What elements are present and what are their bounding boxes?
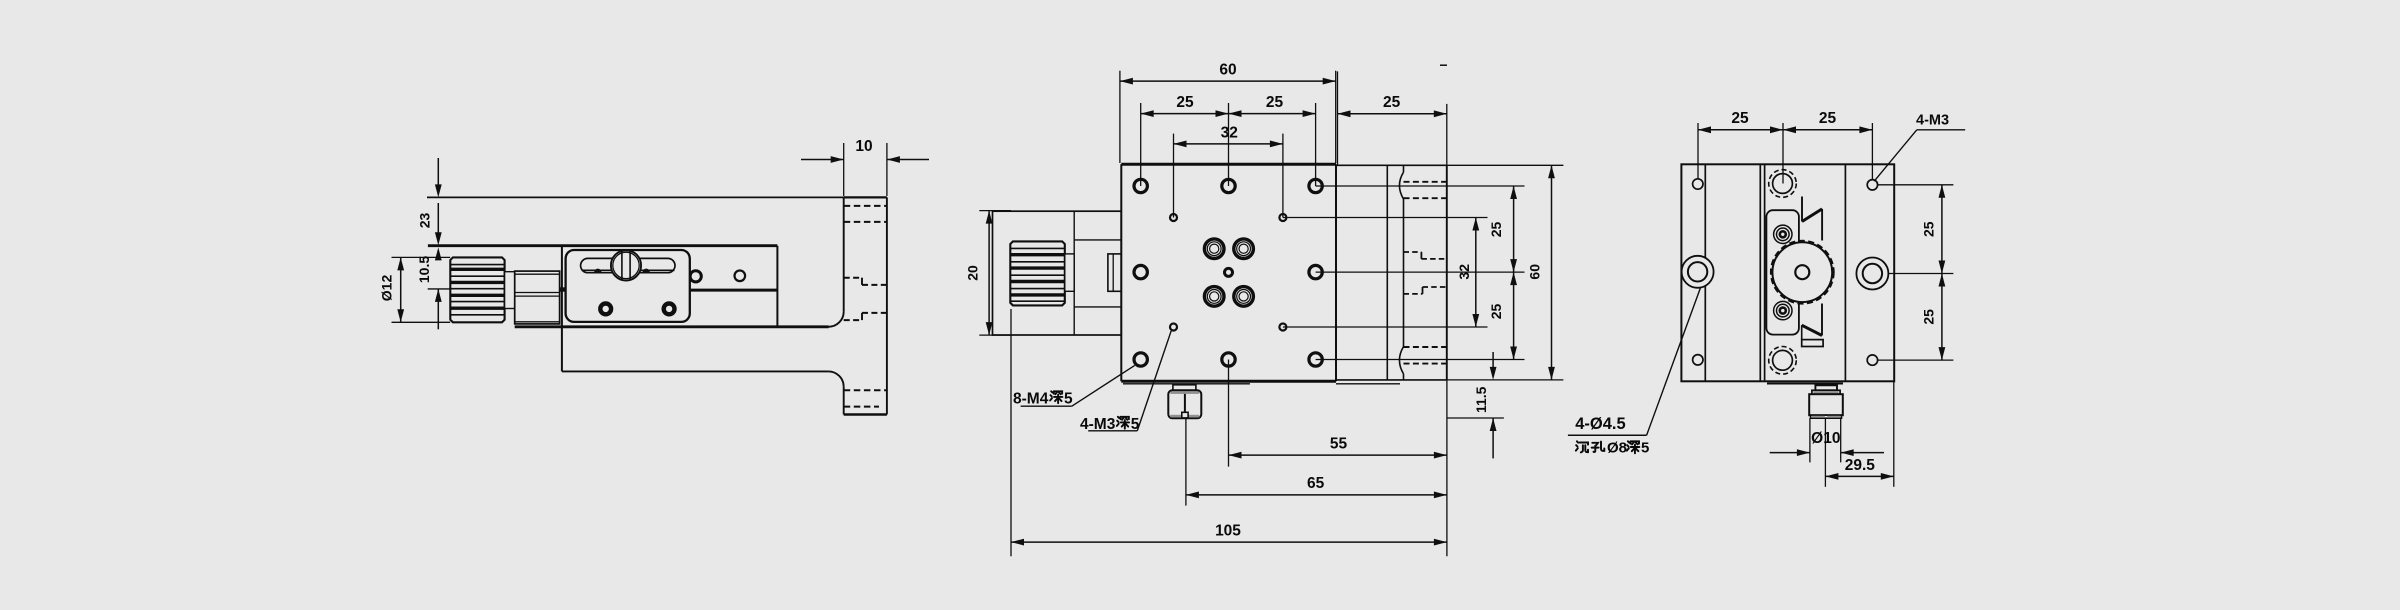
dim 20: line and arrows	[986, 211, 993, 336]
dim Ø12 extension lines	[392, 257, 451, 322]
rail screw ring A	[690, 271, 701, 282]
adjustment slot	[581, 258, 675, 272]
M3 hole top-left	[1170, 214, 1177, 221]
fillet base-to-bracket upper	[829, 312, 844, 327]
leadscrew axis line	[428, 288, 451, 290]
rail inner edge segments	[1403, 165, 1405, 380]
dim 10 arrow left	[801, 156, 844, 163]
slot cam bump left	[594, 269, 601, 273]
dim 10.5 arrows	[435, 247, 442, 329]
spindle socket	[1108, 254, 1121, 291]
dim 10 arrow right	[887, 156, 929, 163]
svg-text:Ø8: Ø8	[1607, 440, 1627, 457]
dim 32 top: extension lines	[1174, 134, 1283, 218]
dim 60 right	[1548, 165, 1555, 380]
M3 hole bottom-left	[1170, 324, 1177, 331]
dim 60 top: line and arrows	[1120, 78, 1336, 85]
dim 25 right lower	[1510, 272, 1517, 359]
dim Ø10 arrows	[1770, 449, 1884, 456]
lock screw head	[611, 250, 641, 280]
carriage side plate	[566, 250, 690, 322]
dim 25 right upper	[1510, 186, 1517, 272]
plate screw hole left	[600, 304, 611, 315]
svg-text:32: 32	[1456, 264, 1472, 280]
rail hidden step upper	[1404, 252, 1447, 259]
bracket plate outline	[844, 197, 887, 414]
svg-text:60: 60	[1527, 264, 1543, 280]
bracket hidden hole dashes top	[844, 206, 887, 222]
clamp screw top	[1774, 225, 1792, 243]
slot cam bump right	[643, 269, 650, 273]
svg-text:25: 25	[1488, 222, 1504, 238]
svg-text:10.5: 10.5	[416, 256, 432, 283]
knurled knob (end view)	[1771, 241, 1834, 304]
top dim 25/25 line and arrows	[1698, 126, 1872, 133]
dim 32 right	[1472, 218, 1479, 328]
bracket hidden step upper	[844, 278, 887, 285]
carriage under-edge lines	[1123, 383, 1400, 385]
svg-text:29.5: 29.5	[1845, 457, 1876, 474]
dim 65 line and arrows	[1186, 492, 1447, 499]
dim 25 rail top: line and arrows	[1338, 110, 1447, 117]
svg-text:25: 25	[1383, 94, 1401, 111]
inner vertical edges	[1705, 164, 1845, 381]
carriage protrusion below square	[1767, 383, 1843, 385]
svg-text:10: 10	[855, 138, 872, 155]
hidden thread bottom (dashes and arc)	[1399, 347, 1446, 374]
label 4-M3 underline and leader	[1088, 331, 1171, 431]
rail hidden step lower	[1404, 287, 1447, 294]
svg-text:23: 23	[417, 213, 433, 229]
svg-text:5: 5	[1641, 440, 1649, 457]
nut neck (end view)	[1815, 385, 1837, 390]
counterbore hole bottom-right	[1234, 287, 1254, 307]
label 8-M4 underline and leader	[1021, 365, 1135, 406]
svg-text:25: 25	[1488, 304, 1504, 320]
bracket hidden step lower	[844, 313, 887, 320]
M4 hole row1 col2	[1222, 179, 1235, 192]
M3 hole bottom-right	[1279, 324, 1286, 331]
svg-text:25: 25	[1920, 221, 1936, 237]
M4 hole row1 col1	[1134, 179, 1147, 192]
center pilot hole	[1225, 268, 1233, 276]
rail top/bottom extension lines right	[1447, 165, 1564, 380]
label 8-M4 deep 5	[1013, 391, 1073, 408]
M4 hole row1 col3	[1309, 179, 1322, 192]
hidden thread circle bottom	[1769, 347, 1797, 375]
label 4-M3 deep 5	[1080, 416, 1140, 433]
svg-text:8-M4: 8-M4	[1013, 391, 1049, 408]
dim 105 line and arrows	[1011, 539, 1447, 546]
knob knurl lines (top view)	[1010, 248, 1065, 301]
dim 10 extension lines	[844, 143, 887, 196]
svg-text:20: 20	[965, 265, 981, 281]
counterbore hole right	[1856, 258, 1888, 290]
dim 25/25 top: extension lines	[1141, 103, 1316, 186]
bracket leg bottom line	[562, 370, 829, 372]
nut flange shading	[1814, 391, 1839, 393]
dim 65 extension	[1185, 418, 1187, 506]
dim 105 extensions	[1011, 309, 1447, 556]
svg-text:25: 25	[1920, 309, 1936, 325]
counterbore hole top-right	[1234, 239, 1254, 259]
nut slot line	[1184, 394, 1186, 412]
svg-text:Ø10: Ø10	[1811, 430, 1840, 447]
M3 hole top-right	[1279, 214, 1286, 221]
label leader	[1647, 288, 1701, 435]
dim 25 right lower	[1939, 274, 1946, 361]
nut body (end view)	[1809, 394, 1843, 415]
nut top chamfer shading	[1170, 392, 1199, 394]
counterbore hole left	[1682, 256, 1714, 288]
dim 23 extension line (bracket top plane)	[427, 196, 844, 198]
svg-text:4-Ø4.5: 4-Ø4.5	[1575, 415, 1625, 433]
main square plate	[1121, 164, 1336, 381]
dim 55 line and arrows	[1229, 452, 1447, 459]
counterbore hole top-left	[1204, 239, 1224, 259]
dim Ø12 arrows	[397, 257, 404, 322]
dovetail clamp wedge bottom	[1802, 304, 1822, 340]
svg-text:105: 105	[1215, 523, 1241, 540]
dovetail clamp wedge top	[1802, 197, 1822, 241]
nut bottom chamfer shading	[1170, 415, 1199, 418]
top dim 25/25 extension lines	[1698, 123, 1872, 184]
rail mid separation line	[690, 289, 778, 292]
svg-text:55: 55	[1330, 436, 1348, 453]
dim 23 arrows	[435, 158, 442, 245]
stray tick mark	[1440, 64, 1447, 66]
housing inset lines	[1074, 211, 1121, 335]
M4 hole row3 col1	[1134, 353, 1147, 366]
rail body right of plate	[1336, 165, 1447, 380]
label 4-M3 underline and leader	[1874, 130, 1965, 181]
nut bottom band shading	[1812, 416, 1841, 418]
label 4-Ø4.5 counterbore	[1575, 415, 1625, 433]
bushing barrel	[515, 271, 560, 324]
main square body	[1681, 164, 1894, 381]
clamp screw bottom	[1774, 301, 1792, 319]
right side hole leader lines	[1878, 185, 1954, 360]
locking nut body (top view)	[1168, 390, 1201, 418]
svg-text:25: 25	[1176, 94, 1194, 111]
knob neck	[505, 272, 515, 309]
plate screw hole right	[664, 304, 675, 315]
table top line	[428, 244, 778, 247]
dim 55 extension	[1228, 360, 1230, 467]
svg-text:11.5: 11.5	[1473, 386, 1489, 413]
M3 hole top-left	[1693, 179, 1703, 189]
bracket hidden hole dashes bottom	[844, 390, 887, 406]
hidden thread top (dashes and arc)	[1399, 172, 1446, 199]
body right edge	[776, 246, 778, 327]
svg-text:4-M3: 4-M3	[1916, 113, 1949, 129]
svg-text:Ø12: Ø12	[379, 275, 395, 302]
locking nut neck (top view)	[1173, 385, 1196, 391]
micrometer housing block	[993, 211, 1122, 335]
svg-text:60: 60	[1219, 62, 1236, 79]
knurled knob (top view)	[1010, 241, 1065, 305]
svg-text:65: 65	[1307, 475, 1325, 492]
shaft stub at body	[560, 287, 567, 291]
hole leader line row2	[1316, 271, 1525, 273]
nut flange (end view)	[1812, 390, 1840, 394]
nut bottom band	[1811, 415, 1842, 418]
hole leader line M3 bottom	[1283, 326, 1488, 328]
label line2: counterbore Ø8 deep 5	[1576, 440, 1649, 457]
clamp bar bottom	[1802, 340, 1823, 347]
M4 hole row3 col2	[1222, 353, 1235, 366]
dim 29.5 line and arrows	[1825, 381, 1893, 487]
body left edge	[561, 246, 563, 372]
slot midline left segment	[582, 269, 612, 271]
dim 25/25 top: line and arrows	[1141, 110, 1316, 117]
leadscrew shaft lines	[515, 293, 560, 297]
M3 hole bottom-right	[1867, 355, 1877, 365]
slot midline right segment	[641, 269, 675, 271]
M4 hole row2 col3	[1309, 265, 1322, 278]
knurled knob (side view)	[450, 257, 504, 322]
dim Ø10 extension lines	[1810, 418, 1841, 487]
dim 60 top: extension lines	[1120, 71, 1336, 163]
M4 hole row3 col3	[1309, 353, 1322, 366]
rail screw ring B	[735, 271, 746, 282]
dim 25 rail top: extension lines	[1338, 71, 1447, 165]
micrometer bracket (end view)	[1766, 210, 1799, 334]
hidden thread circle top	[1769, 170, 1797, 198]
svg-text:25: 25	[1731, 110, 1749, 127]
label underline	[1568, 434, 1647, 436]
dim 25 right upper	[1939, 185, 1946, 274]
svg-text:32: 32	[1221, 125, 1238, 142]
nut slot notch	[1182, 412, 1188, 418]
hole leader line row1	[1316, 185, 1525, 187]
hole leader line M3 top	[1283, 217, 1488, 219]
M4 hole row2 col1	[1134, 265, 1147, 278]
stage base bottom line	[515, 325, 829, 328]
extension lines into plate to hole centers	[1141, 164, 1316, 217]
dim 11.5	[1447, 352, 1504, 458]
M3 hole bottom-left	[1693, 355, 1703, 365]
knob knurl lines	[450, 265, 504, 315]
svg-text:25: 25	[1819, 110, 1837, 127]
svg-text:25: 25	[1266, 94, 1284, 111]
knob neck (top view)	[1065, 254, 1074, 291]
hole leader line row3	[1316, 359, 1525, 361]
fillet leg-to-bracket lower	[828, 371, 843, 386]
M3 hole top-right	[1867, 180, 1877, 190]
dim 32 top: line and arrows	[1174, 141, 1283, 148]
bushing chamfer lines	[515, 274, 560, 322]
dim 20: extension lines	[979, 211, 1011, 336]
svg-text:5: 5	[1064, 391, 1073, 408]
counterbore hole bottom-left	[1204, 287, 1224, 307]
